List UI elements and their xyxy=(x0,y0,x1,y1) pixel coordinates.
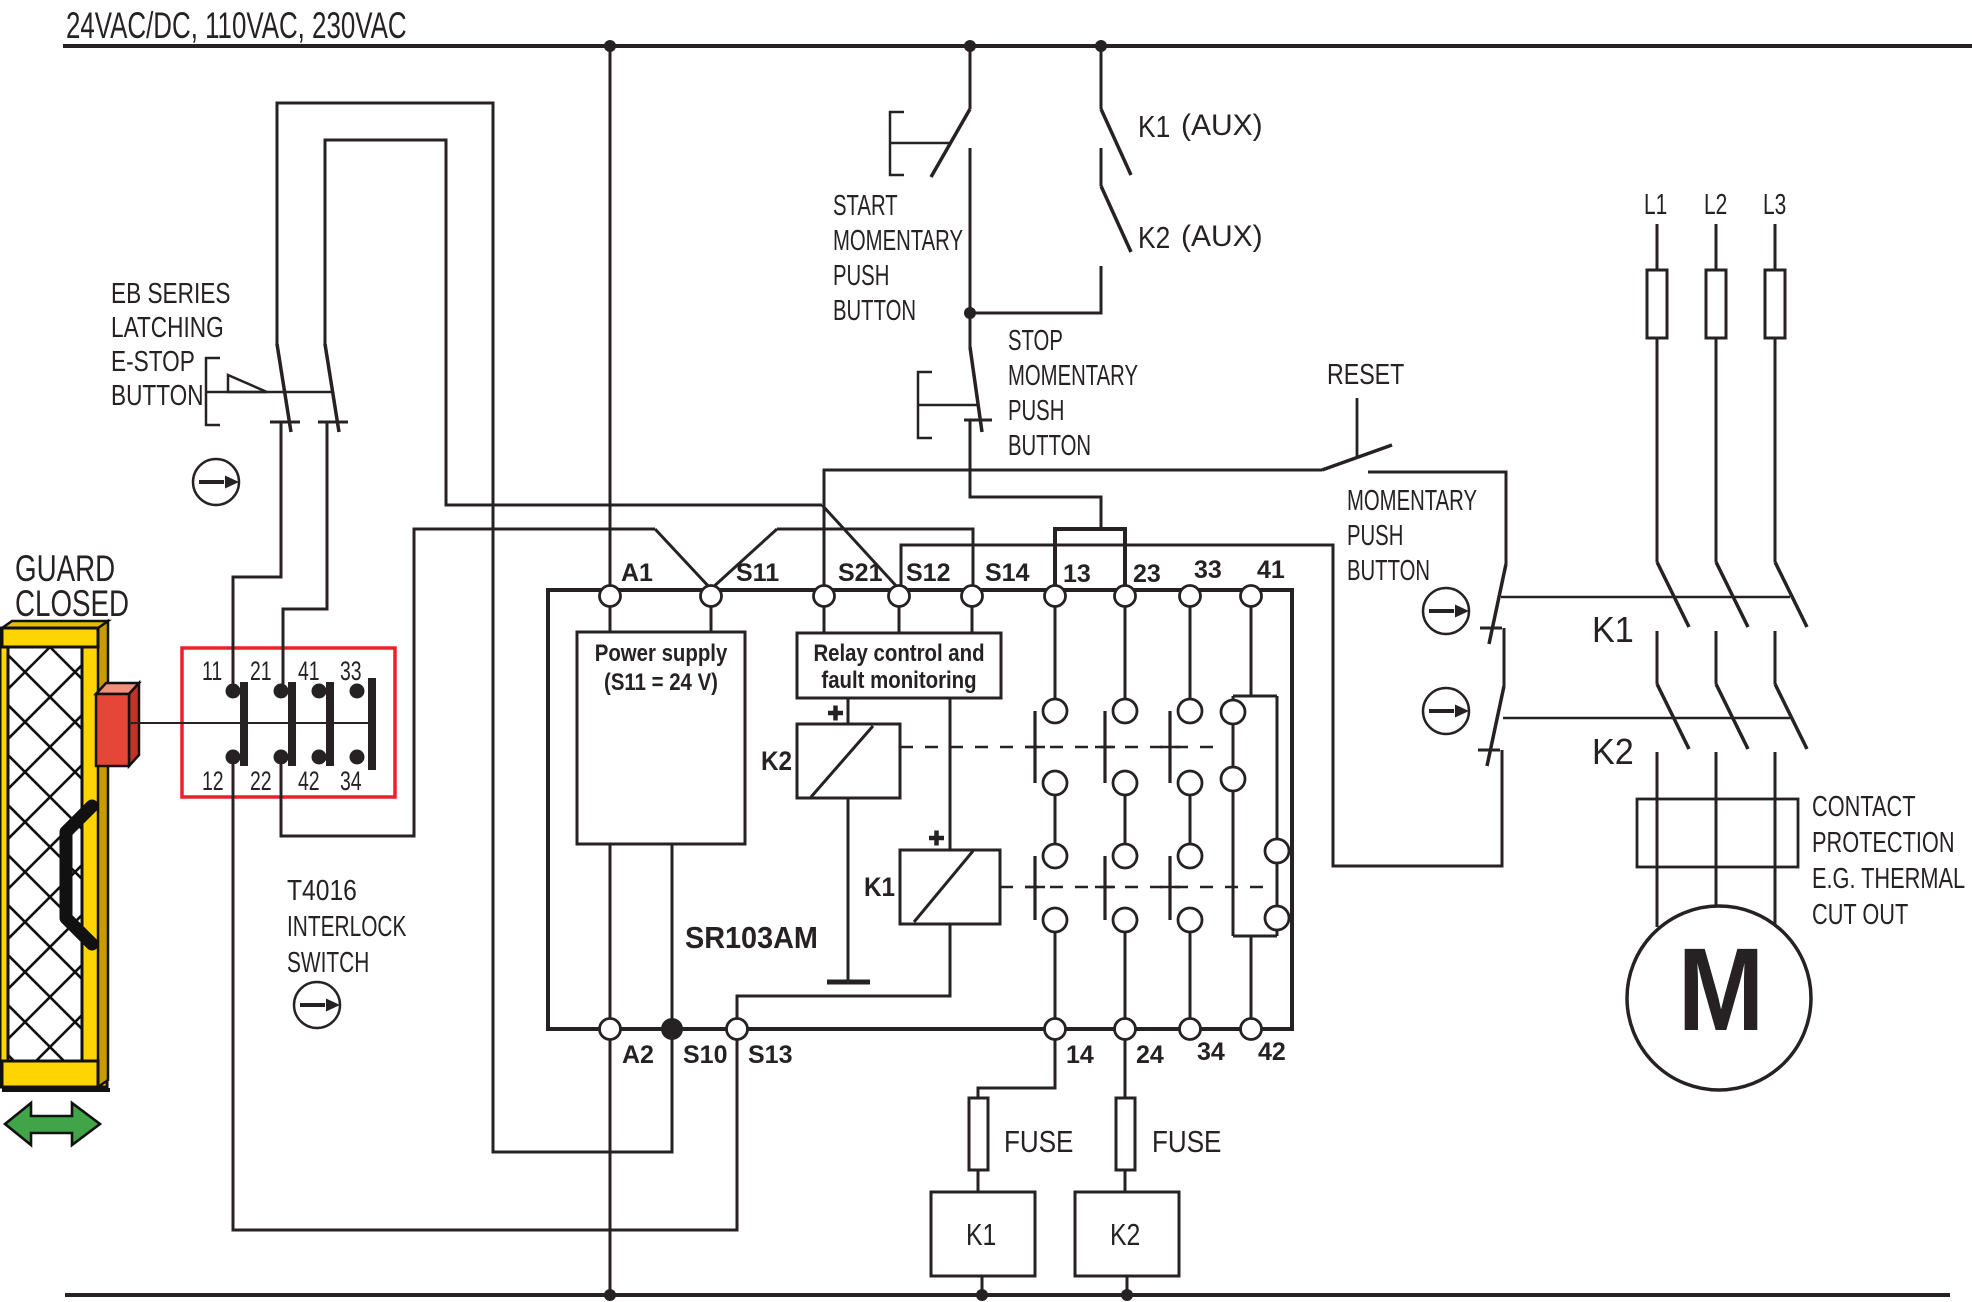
coil K1 diagonal xyxy=(914,851,973,922)
interlock contact 41-42 terminals xyxy=(312,682,335,766)
svg-text:BUTTON: BUTTON xyxy=(1347,555,1430,587)
svg-text:PUSH: PUSH xyxy=(833,260,889,292)
label START MOMENTARY PUSH BUTTON xyxy=(833,190,963,327)
feedback arrow head K1 xyxy=(1455,605,1469,618)
svg-text:PUSH: PUSH xyxy=(1347,520,1403,552)
tongue actuator front face xyxy=(96,694,129,766)
svg-text:LATCHING: LATCHING xyxy=(111,310,224,343)
wire S21 to relay control xyxy=(823,606,826,633)
interlock contact 33-34 bridge bar xyxy=(368,678,376,770)
contact column 13-14 circles xyxy=(1043,699,1067,932)
contactor K1 row link line xyxy=(1501,596,1790,599)
dashed link K1 row xyxy=(1000,886,1266,889)
wire bottom return rail xyxy=(65,1293,1950,1297)
svg-text:BUTTON: BUTTON xyxy=(1008,430,1091,462)
terminal 13 xyxy=(1045,586,1066,607)
guard frame 3D dark edge xyxy=(98,621,108,1087)
svg-text:S10: S10 xyxy=(683,1041,727,1069)
contact column 33-34 circles xyxy=(1178,699,1202,932)
wire coil K1 to bottom rail xyxy=(981,1276,984,1295)
svg-text:23: 23 xyxy=(1133,560,1161,588)
svg-text:L3: L3 xyxy=(1763,189,1786,221)
wire stop output down and right xyxy=(970,420,1101,527)
node junction start/aux xyxy=(964,307,976,319)
fuse F1 body xyxy=(969,1098,988,1170)
start button pusher stem xyxy=(890,142,951,145)
fuse F2 body xyxy=(1116,1098,1135,1170)
contactor coil K1 box xyxy=(931,1192,1035,1276)
svg-text:41: 41 xyxy=(1257,556,1285,584)
coil K2 diagonal xyxy=(811,726,873,797)
contact column 13-14 K2 bar xyxy=(1033,711,1036,783)
svg-text:K1: K1 xyxy=(966,1217,996,1251)
contactor coil K2 box xyxy=(1075,1192,1179,1276)
label K1 (AUX) xyxy=(1138,109,1263,145)
phase L2 feed wire xyxy=(1715,224,1718,270)
guard frame left strip xyxy=(0,628,8,1087)
coil K2 box xyxy=(797,724,900,798)
safety relay module SR103AM outline xyxy=(548,590,1292,1029)
terminal 34 xyxy=(1180,1019,1201,1040)
wire interlock 12 to S13 xyxy=(233,764,737,1230)
wire terminal 24 to fuse 2 xyxy=(1124,1040,1127,1098)
svg-text:E-STOP: E-STOP xyxy=(111,344,195,377)
wire diagonal into S12 xyxy=(822,505,899,589)
feedback arrow shaft K1 xyxy=(1429,609,1454,613)
start button lower stub to junction xyxy=(969,148,972,313)
contact K1 AUX blade xyxy=(1101,109,1131,175)
svg-text:START: START xyxy=(833,190,898,222)
feedback arrow circle K1 xyxy=(1423,588,1469,634)
wire fuse 1 to contactor coil K1 xyxy=(977,1170,980,1192)
svg-text:S14: S14 xyxy=(985,559,1030,587)
phase L3 feed wire xyxy=(1774,224,1777,270)
reset button stem xyxy=(1356,398,1359,458)
contact column 23-24 K2 bar xyxy=(1103,711,1106,783)
wire interlock 22 riser to S11 xyxy=(281,529,655,836)
node junction bottom rail at K1 contactor coil xyxy=(976,1289,988,1301)
terminal labels bottom row xyxy=(622,1038,1286,1069)
contactor K1 pole 1 blade xyxy=(1657,562,1689,627)
wire e-stop contact2 top to inner loop xyxy=(325,140,822,505)
phase wires into thermal cutout xyxy=(1657,752,1775,799)
svg-text:S12: S12 xyxy=(906,559,950,587)
terminal 23 xyxy=(1115,586,1136,607)
svg-text:K1: K1 xyxy=(864,873,895,902)
interlock direction arrow circle xyxy=(294,982,340,1028)
phase L1 feed wire xyxy=(1656,224,1659,270)
svg-text:L1: L1 xyxy=(1644,189,1667,221)
svg-text:42: 42 xyxy=(298,766,320,796)
motor M circle xyxy=(1627,906,1811,1090)
node junction top rail at START branch xyxy=(964,40,976,52)
guard motion double arrow xyxy=(5,1103,100,1145)
contact column 23-24 wires xyxy=(1124,606,1127,1019)
svg-text:S21: S21 xyxy=(838,559,883,587)
wire between K1 AUX and K2 AUX xyxy=(1100,148,1103,186)
terminal S14 xyxy=(962,586,983,607)
svg-text:M: M xyxy=(1678,923,1764,1056)
SECTION: startstop xyxy=(833,46,1263,590)
fuse L2 body xyxy=(1706,270,1726,338)
phase wires through cutout to motor xyxy=(1657,799,1775,927)
svg-text:34: 34 xyxy=(1197,1038,1225,1066)
dashed link K2 row xyxy=(900,746,1223,749)
mechanical tick marks on contact bars K2 row xyxy=(1025,746,1180,749)
contactor K2 pole 2 blade xyxy=(1716,684,1748,749)
interlock contact 11-12 terminals xyxy=(226,682,249,766)
wire S11 jumper across to S14 xyxy=(777,529,973,589)
contact K1 AUX upper stub xyxy=(1100,46,1103,109)
svg-text:BUTTON: BUTTON xyxy=(833,295,916,327)
contactor K1 pole 2 blade xyxy=(1716,562,1748,627)
fuse L1 body xyxy=(1647,270,1667,338)
wire A2 to bottom rail xyxy=(609,1040,612,1295)
feedback arrow head K2 xyxy=(1455,705,1469,718)
wire diagonal out of S11 right xyxy=(711,529,777,589)
terminal 14 xyxy=(1045,1019,1066,1040)
terminal labels top row xyxy=(621,556,1285,588)
guard frame top rail xyxy=(2,628,98,647)
label + above K2 coil xyxy=(828,706,843,721)
direction arrow symbol circle xyxy=(193,459,239,505)
wire K1 coil to S13 xyxy=(737,924,950,1019)
svg-text:24: 24 xyxy=(1136,1041,1164,1069)
svg-text:34: 34 xyxy=(340,766,362,796)
stop button upper stub xyxy=(969,313,972,347)
guard frame bottom shadow line xyxy=(2,1088,110,1092)
wire A1 drop from top rail xyxy=(609,46,612,586)
e-stop actuator bar xyxy=(206,391,331,394)
svg-text:12: 12 xyxy=(202,766,224,796)
svg-text:PUSH: PUSH xyxy=(1008,395,1064,427)
feedback contact K2 seat tick xyxy=(1478,749,1500,752)
e-stop latch wedge triangle xyxy=(228,375,267,392)
svg-text:21: 21 xyxy=(250,656,272,686)
svg-text:MOMENTARY: MOMENTARY xyxy=(1008,360,1138,392)
terminal A1 xyxy=(600,586,621,607)
ground bar for K2 coil xyxy=(827,980,870,985)
feedback contact K1 blade xyxy=(1489,564,1506,644)
wire e-stop contact1 top to outer loop to S10 xyxy=(277,103,672,1152)
guard handle xyxy=(66,806,92,944)
contact K2 AUX blade xyxy=(1101,186,1131,252)
stop button seat tick xyxy=(964,419,992,422)
start button blade xyxy=(931,109,970,177)
terminal 42 xyxy=(1241,1019,1262,1040)
e-stop contact 2 seat tick xyxy=(318,421,348,424)
svg-text:SWITCH: SWITCH xyxy=(287,947,369,979)
wire S21 riser to reset switch xyxy=(824,470,1322,586)
svg-text:K1: K1 xyxy=(1592,610,1634,650)
label T4016 INTERLOCK SWITCH xyxy=(287,874,407,979)
svg-text:E.G. THERMAL: E.G. THERMAL xyxy=(1812,863,1965,895)
wire e-stop contact2 bottom to interlock 21 xyxy=(283,421,327,684)
svg-text:S13: S13 xyxy=(748,1041,792,1069)
tongue actuator 3D top face xyxy=(96,683,139,694)
wire S10 from power supply xyxy=(671,844,674,1019)
label K2 (AUX) xyxy=(1138,220,1263,256)
label + above K1 coil xyxy=(929,831,944,846)
svg-text:S11: S11 xyxy=(736,559,779,587)
contact column 13-14 K1 bar xyxy=(1033,856,1036,920)
svg-text:42: 42 xyxy=(1258,1038,1286,1066)
wire reset switch to right loop xyxy=(1368,472,1506,564)
feedback contact K1 seat tick xyxy=(1480,627,1502,630)
svg-text:(AUX): (AUX) xyxy=(1181,220,1263,253)
svg-text:K2: K2 xyxy=(1138,221,1170,255)
svg-text:K1: K1 xyxy=(1138,110,1170,144)
wire A1 to power supply xyxy=(609,606,612,632)
wire top supply rail xyxy=(63,44,1972,48)
terminal A2 xyxy=(600,1019,621,1040)
svg-text:K2: K2 xyxy=(1592,732,1634,772)
svg-text:K2: K2 xyxy=(1110,1217,1140,1251)
SECTION: power3ph xyxy=(1501,189,1965,1090)
SECTION: estop xyxy=(111,276,348,505)
terminal 41 xyxy=(1241,586,1262,607)
svg-text:PROTECTION: PROTECTION xyxy=(1812,827,1955,859)
start button pusher bracket xyxy=(890,112,904,175)
wire S11 to power supply xyxy=(710,606,713,632)
svg-text:BUTTON: BUTTON xyxy=(111,378,204,411)
svg-text:MOMENTARY: MOMENTARY xyxy=(833,225,963,257)
svg-text:INTERLOCK: INTERLOCK xyxy=(287,911,407,943)
svg-text:13: 13 xyxy=(1063,560,1091,588)
wire feedback loop back to S12 xyxy=(901,545,1502,866)
feedback arrow circle K2 xyxy=(1423,688,1469,734)
svg-text:CONTACT: CONTACT xyxy=(1812,791,1916,823)
terminal S10 filled node xyxy=(661,1018,683,1040)
interlock contact labels top 11 21 41 33 xyxy=(202,656,362,686)
label Power supply (S11 = 24 V) xyxy=(595,639,728,695)
interlock contact 33-34 terminals xyxy=(350,678,377,770)
wire coil K2 to bottom rail xyxy=(1126,1276,1129,1295)
guard frame main vertical bar xyxy=(82,628,107,1087)
wire relay control to K1 coil xyxy=(949,698,952,850)
e-stop contact 2 blade xyxy=(325,344,339,432)
SECTION: module xyxy=(548,46,1292,1069)
contact column 13-14 wires xyxy=(1054,606,1057,1019)
relay control block xyxy=(797,633,1001,698)
svg-text:SR103AM: SR103AM xyxy=(685,921,818,955)
wire fuse 2 to contactor coil K2 xyxy=(1124,1170,1127,1192)
svg-text:(AUX): (AUX) xyxy=(1181,109,1263,142)
SECTION: leftwires xyxy=(233,103,973,1230)
interlock contact 41-42 bridge bar xyxy=(326,682,334,766)
svg-text:FUSE: FUSE xyxy=(1152,1125,1221,1160)
svg-text:STOP: STOP xyxy=(1008,325,1063,357)
SECTION: bottomk xyxy=(610,1040,1221,1295)
stop button blade xyxy=(970,347,982,432)
wire K2 AUX lower to junction xyxy=(970,266,1101,313)
terminal S13 xyxy=(727,1019,748,1040)
node junction bottom rail at K2 contactor coil xyxy=(1121,1289,1133,1301)
thermal cutout box xyxy=(1637,799,1798,867)
svg-text:22: 22 xyxy=(250,766,272,796)
interlock contact 21-22 bridge bar xyxy=(288,682,296,766)
svg-text:fault monitoring: fault monitoring xyxy=(821,666,976,693)
node junction top rail at K1AUX branch xyxy=(1095,40,1107,52)
phase wires between K1 and K2 contacts xyxy=(1657,631,1775,684)
stop button pusher bracket xyxy=(918,372,932,438)
SECTION: guard xyxy=(0,547,550,1145)
svg-text:RESET: RESET xyxy=(1327,357,1404,390)
contactor K2 pole 3 blade xyxy=(1775,684,1807,749)
wire A2 from power supply xyxy=(609,844,612,1019)
terminal 24 xyxy=(1115,1019,1136,1040)
interlock direction arrow head xyxy=(326,999,340,1012)
feedback contact K2 blade xyxy=(1487,686,1504,766)
svg-text:41: 41 xyxy=(298,656,320,686)
contact column 41-42 split path xyxy=(1233,606,1277,1019)
wire terminal 14 to fuse 1 xyxy=(978,1040,1055,1098)
svg-text:MOMENTARY: MOMENTARY xyxy=(1347,485,1477,517)
SECTION: resetloop xyxy=(824,357,1506,866)
mechanical tick marks on contact bars K1 row xyxy=(1025,886,1180,889)
guard frame 3D top edge xyxy=(2,621,108,628)
svg-text:CUT OUT: CUT OUT xyxy=(1812,899,1909,931)
wire diagonal into S11 left xyxy=(655,529,711,589)
svg-text:Relay control and: Relay control and xyxy=(813,639,984,666)
phase L2 wire to K1 contact xyxy=(1715,338,1718,562)
wire S14 to relay control xyxy=(971,606,974,633)
label CONTACT PROTECTION E.G. THERMAL CUT OUT xyxy=(1812,791,1965,931)
contact column 23-24 circles xyxy=(1113,699,1137,932)
contact column 33-34 K2 bar xyxy=(1168,711,1171,783)
direction arrow symbol head xyxy=(225,476,239,489)
node junction bottom rail at A2 xyxy=(604,1289,616,1301)
tongue actuator 3D side face xyxy=(129,683,139,766)
interlock direction arrow shaft xyxy=(300,1003,325,1007)
SECTION: interlock xyxy=(129,648,407,1028)
reset switch blade xyxy=(1322,445,1392,470)
wire bridge over terminals 13 and 23 xyxy=(1055,529,1125,590)
contactor K2 pole 1 blade xyxy=(1657,684,1689,749)
label Relay control and fault monitoring xyxy=(813,639,984,693)
interlock contact 11-12 bridge bar xyxy=(240,682,248,766)
svg-text:A1: A1 xyxy=(621,559,653,587)
stop button pusher stem xyxy=(918,404,977,407)
svg-text:Power supply: Power supply xyxy=(595,639,728,666)
svg-text:L2: L2 xyxy=(1704,189,1727,221)
power supply block xyxy=(577,632,745,844)
wire K2 coil to ground xyxy=(847,798,850,980)
wire S12 to relay control xyxy=(898,606,901,633)
terminal S21 xyxy=(814,586,835,607)
feedback arrow shaft K2 xyxy=(1429,709,1454,713)
start button upper stub xyxy=(969,46,972,109)
phase L3 wire to K1 contact xyxy=(1774,338,1777,562)
coil K1 box xyxy=(900,850,1000,924)
svg-text:CLOSED: CLOSED xyxy=(15,582,129,624)
e-stop contact 1 blade xyxy=(277,344,291,432)
label EB SERIES LATCHING E-STOP BUTTON xyxy=(111,276,230,411)
interlock contact labels bottom 12 22 42 34 xyxy=(202,766,362,796)
contact column 23-24 K1 bar xyxy=(1103,856,1106,920)
wire relay control to K2 coil xyxy=(847,698,850,724)
e-stop contact 1 seat tick xyxy=(270,421,300,424)
wire e-stop contact1 bottom to interlock 11 xyxy=(233,421,281,684)
fuse L3 body xyxy=(1765,270,1785,338)
svg-text:24VAC/DC, 110VAC, 230VAC: 24VAC/DC, 110VAC, 230VAC xyxy=(66,4,407,46)
svg-text:14: 14 xyxy=(1066,1041,1094,1069)
contact column 33-34 wires xyxy=(1189,606,1192,1019)
terminal S11 xyxy=(701,586,722,607)
contact column 33-34 K1 bar xyxy=(1168,856,1171,920)
svg-text:T4016: T4016 xyxy=(287,874,357,906)
contact column 41-42 circles xyxy=(1221,700,1289,930)
svg-text:A2: A2 xyxy=(622,1041,654,1069)
label STOP MOMENTARY PUSH BUTTON xyxy=(1008,325,1138,462)
wire between feedback contacts xyxy=(1503,628,1506,686)
svg-text:FUSE: FUSE xyxy=(1004,1125,1073,1160)
interlock mechanical link line from tongue xyxy=(129,722,374,724)
node junction top rail at A1 drop xyxy=(604,40,616,52)
e-stop latch bracket xyxy=(206,358,220,425)
interlock contact 21-22 terminals xyxy=(274,682,297,766)
svg-text:33: 33 xyxy=(340,656,362,686)
terminal S12 xyxy=(889,586,910,607)
svg-text:(S11 = 24 V): (S11 = 24 V) xyxy=(604,668,718,695)
terminal 33 xyxy=(1180,586,1201,607)
svg-text:11: 11 xyxy=(202,656,222,686)
svg-text:EB SERIES: EB SERIES xyxy=(111,276,230,309)
direction arrow symbol shaft xyxy=(199,480,224,484)
label MOMENTARY PUSH BUTTON (reset) xyxy=(1347,485,1477,587)
contactor K1 pole 3 blade xyxy=(1775,562,1807,627)
svg-text:33: 33 xyxy=(1194,556,1222,584)
contactor K2 row link line xyxy=(1503,717,1790,720)
interlock switch red outline box xyxy=(182,648,395,797)
guard frame bottom rail xyxy=(2,1061,98,1087)
phase L1 wire to K1 contact xyxy=(1656,338,1659,562)
svg-text:K2: K2 xyxy=(761,747,792,776)
